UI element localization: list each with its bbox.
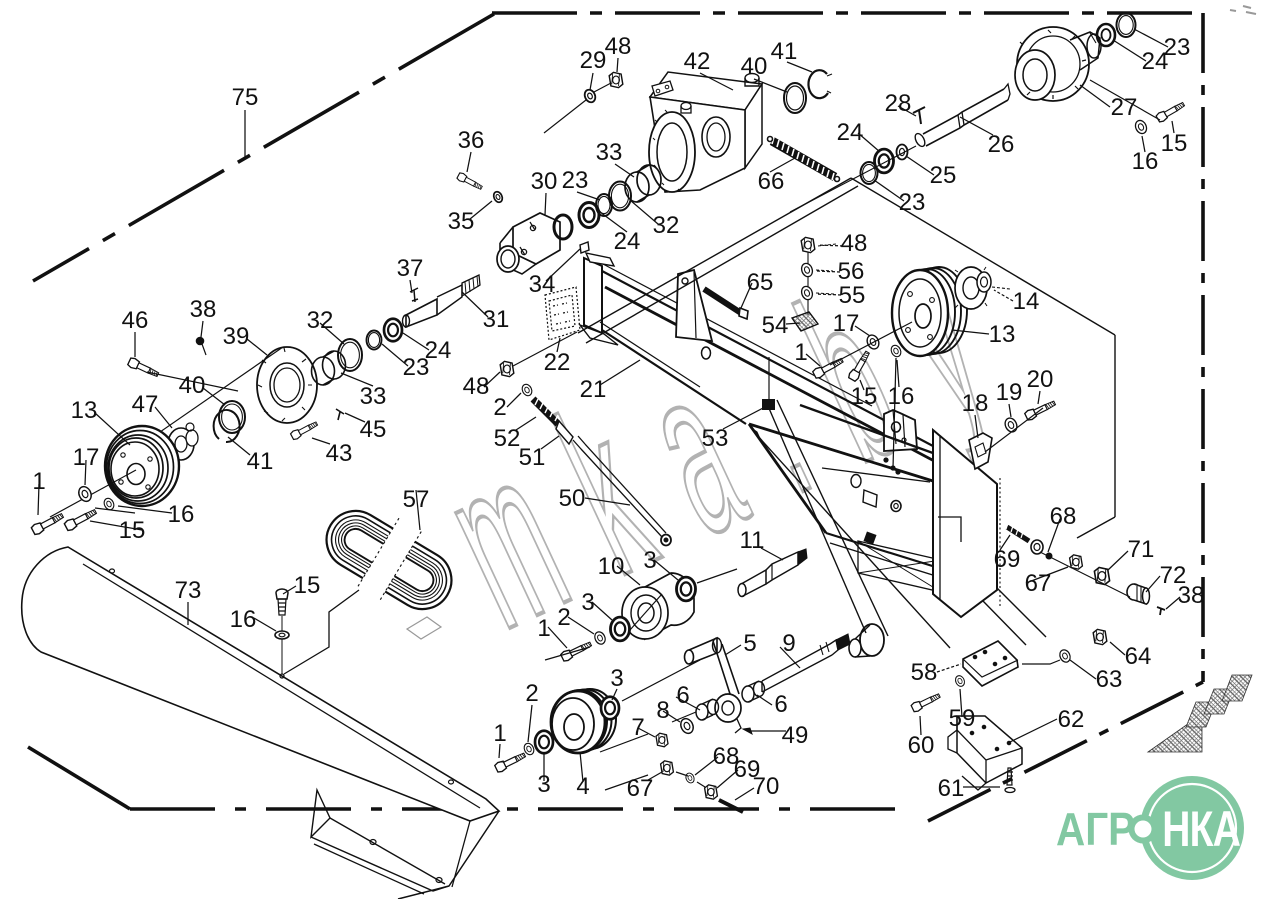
svg-text:НКА: НКА [1162, 800, 1240, 857]
svg-text:27: 27 [1111, 94, 1138, 121]
hub 47 [168, 423, 198, 463]
small dashed rhombus under belt [407, 617, 441, 639]
svg-text:3: 3 [610, 665, 623, 692]
svg-text:52: 52 [494, 425, 521, 452]
pulley 13 left [50, 426, 179, 517]
svg-text:33: 33 [360, 383, 387, 410]
svg-text:59: 59 [949, 705, 976, 732]
svg-text:17: 17 [833, 310, 860, 337]
svg-text:20: 20 [1027, 366, 1054, 393]
svg-text:15: 15 [119, 517, 146, 544]
svg-text:25: 25 [930, 162, 957, 189]
svg-text:54: 54 [762, 312, 789, 339]
svg-text:28: 28 [885, 90, 912, 117]
svg-text:14: 14 [1013, 288, 1040, 315]
svg-text:33: 33 [596, 139, 623, 166]
svg-text:18: 18 [962, 390, 989, 417]
bolt 65 [704, 289, 741, 313]
svg-text:64: 64 [1125, 643, 1152, 670]
plate 22 (dotted) [545, 287, 580, 340]
housing bin and right wall [749, 400, 1046, 657]
beam thin back lip [603, 264, 872, 406]
svg-text:3: 3 [643, 547, 656, 574]
svg-text:68: 68 [1050, 503, 1077, 530]
svg-text:32: 32 [307, 307, 334, 334]
svg-text:48: 48 [463, 373, 490, 400]
svg-text:73: 73 [175, 577, 202, 604]
left bolts/washers [31, 485, 135, 536]
54 wedge + 48b/56/55 stack [792, 237, 912, 382]
frame beam 21 [580, 253, 938, 463]
svg-text:75: 75 [232, 84, 259, 111]
svg-text:8: 8 [656, 697, 669, 724]
svg-text:24: 24 [614, 228, 641, 255]
svg-text:38: 38 [190, 296, 217, 323]
belt cover 73 [22, 547, 499, 899]
svg-text:69: 69 [994, 546, 1021, 573]
svg-text:6: 6 [774, 691, 787, 718]
svg-text:23: 23 [899, 189, 926, 216]
svg-text:21: 21 [580, 376, 607, 403]
svg-text:41: 41 [247, 448, 274, 475]
phantom leader lines [578, 178, 1115, 606]
svg-text:58: 58 [911, 659, 938, 686]
svg-text:57: 57 [403, 486, 430, 513]
svg-text:2: 2 [525, 680, 538, 707]
face hole [702, 347, 711, 359]
67a 68a 69a 70 row [605, 761, 743, 812]
svg-text:41: 41 [771, 38, 798, 65]
bin back rim [800, 405, 955, 461]
svg-text:13: 13 [989, 321, 1016, 348]
svg-text:23: 23 [403, 354, 430, 381]
svg-text:1: 1 [32, 468, 45, 495]
svg-text:16: 16 [230, 606, 257, 633]
right wall [933, 430, 997, 617]
linkage rods from pivot [768, 406, 866, 633]
svg-text:50: 50 [559, 485, 586, 512]
svg-text:37: 37 [397, 255, 424, 282]
svg-text:65: 65 [747, 269, 774, 296]
grommet and clip details [851, 475, 861, 488]
output boss [860, 624, 884, 656]
svg-text:15: 15 [294, 572, 321, 599]
svg-text:22: 22 [544, 349, 571, 376]
svg-text:30: 30 [531, 168, 558, 195]
watermark mka.by [411, 186, 1057, 678]
svg-text:23: 23 [562, 167, 589, 194]
AGRO NKA logo [1056, 776, 1244, 880]
svg-text:24: 24 [837, 119, 864, 146]
shaft 31 [403, 315, 410, 327]
hub 14 [955, 267, 1010, 309]
block 30 body [513, 213, 560, 264]
svg-text:29: 29 [580, 47, 607, 74]
svg-text:3: 3 [581, 589, 594, 616]
beam bottom edge [602, 330, 746, 424]
svg-text:2: 2 [557, 604, 570, 631]
svg-text:1: 1 [794, 339, 807, 366]
gusset bracket on beam [676, 270, 712, 341]
svg-text:4: 4 [576, 773, 589, 800]
bin bottom rim [826, 533, 955, 573]
svg-text:16: 16 [1132, 148, 1159, 175]
chute lines to bracket 58 [997, 588, 1046, 637]
svg-text:19: 19 [996, 379, 1023, 406]
svg-text:67: 67 [627, 775, 654, 802]
svg-text:48: 48 [841, 230, 868, 257]
svg-text:АГР: АГР [1056, 805, 1135, 856]
svg-text:15: 15 [1161, 130, 1188, 157]
beam top edge [602, 271, 933, 446]
bolt 15c + washer 16c + zigzag leader [275, 589, 359, 678]
bin top rim [749, 424, 933, 481]
direction arrows [1148, 675, 1252, 752]
svg-text:55: 55 [839, 282, 866, 309]
svg-text:47: 47 [132, 391, 159, 418]
brackets 58-64 [911, 629, 1107, 792]
svg-text:67: 67 [1025, 570, 1052, 597]
18 bracket 19 washer 20 bolt [969, 399, 1057, 469]
clevis bracket [884, 410, 917, 451]
svg-text:71: 71 [1128, 536, 1155, 563]
svg-text:48: 48 [605, 33, 632, 60]
ring 40a and snap 41a [784, 70, 832, 113]
pin 11 [738, 549, 807, 597]
beam left end plate [584, 258, 602, 333]
svg-text:40: 40 [741, 53, 768, 80]
29 washer / 48a nut [544, 72, 623, 133]
svg-text:46: 46 [122, 307, 149, 334]
label leader lines [38, 29, 1180, 800]
svg-text:43: 43 [326, 440, 353, 467]
svg-text:70: 70 [753, 773, 780, 800]
pin 34 [580, 242, 589, 253]
spring 66 [768, 137, 840, 182]
svg-text:61: 61 [938, 775, 965, 802]
pulley 4 group [494, 660, 700, 773]
pivot bolt 53 [763, 400, 774, 409]
center: 48c 2a 52 51 50 rod [500, 332, 671, 546]
svg-text:40: 40 [179, 372, 206, 399]
pulley 13 right [892, 267, 967, 356]
svg-text:35: 35 [448, 208, 475, 235]
beam inner lip [605, 287, 938, 463]
svg-text:16: 16 [888, 383, 915, 410]
svg-text:2: 2 [493, 394, 506, 421]
svg-text:63: 63 [1096, 666, 1123, 693]
leader arrow at bin corner [750, 427, 762, 443]
bearing flange 39 group [105, 319, 402, 470]
svg-text:36: 36 [458, 127, 485, 154]
svg-text:13: 13 [71, 397, 98, 424]
svg-text:62: 62 [1058, 706, 1085, 733]
svg-text:3: 3 [537, 771, 550, 798]
svg-text:17: 17 [73, 444, 100, 471]
svg-text:10: 10 [598, 553, 625, 580]
gearbox housing 42 [649, 72, 762, 192]
svg-text:42: 42 [684, 48, 711, 75]
tensioner arm 5 with parts 6-9,49 [600, 634, 850, 752]
svg-text:31: 31 [483, 306, 510, 333]
svg-text:56: 56 [838, 258, 865, 285]
svg-text:32: 32 [653, 212, 680, 239]
svg-text:39: 39 [223, 323, 250, 350]
28 pin, 25 washer, 24b bearing, 23b ring [790, 13, 1186, 212]
bin left edge [749, 424, 826, 533]
svg-text:66: 66 [758, 168, 785, 195]
svg-text:24: 24 [1142, 48, 1169, 75]
svg-text:53: 53 [702, 425, 729, 452]
washer 35 / bolt 36 [492, 190, 504, 203]
svg-text:9: 9 [782, 630, 795, 657]
svg-text:11: 11 [740, 527, 765, 554]
svg-text:45: 45 [360, 416, 387, 443]
svg-text:60: 60 [908, 732, 935, 759]
svg-text:49: 49 [782, 722, 809, 749]
svg-text:6: 6 [676, 682, 689, 709]
v-belt 57 [310, 490, 469, 630]
svg-text:1: 1 [537, 615, 550, 642]
rings 24a 23a 32a 33a [579, 165, 661, 228]
bearing block 30 with shaft 31 [403, 172, 590, 327]
svg-text:5: 5 [743, 630, 756, 657]
svg-text:38: 38 [1178, 582, 1205, 609]
svg-text:15: 15 [851, 383, 878, 410]
roller 10 group [545, 569, 737, 662]
svg-text:1: 1 [493, 720, 506, 747]
part number labels [32, 33, 1204, 802]
svg-text:7: 7 [631, 714, 644, 741]
svg-text:34: 34 [529, 271, 556, 298]
right fastener row 69b 67b 71 72 38b [1006, 523, 1165, 615]
X brace box [858, 541, 941, 592]
svg-text:26: 26 [988, 131, 1015, 158]
screw 37 [410, 288, 418, 302]
svg-text:51: 51 [519, 444, 546, 471]
shaft 26 and hub 27 [913, 27, 1101, 148]
svg-text:16: 16 [168, 501, 195, 528]
